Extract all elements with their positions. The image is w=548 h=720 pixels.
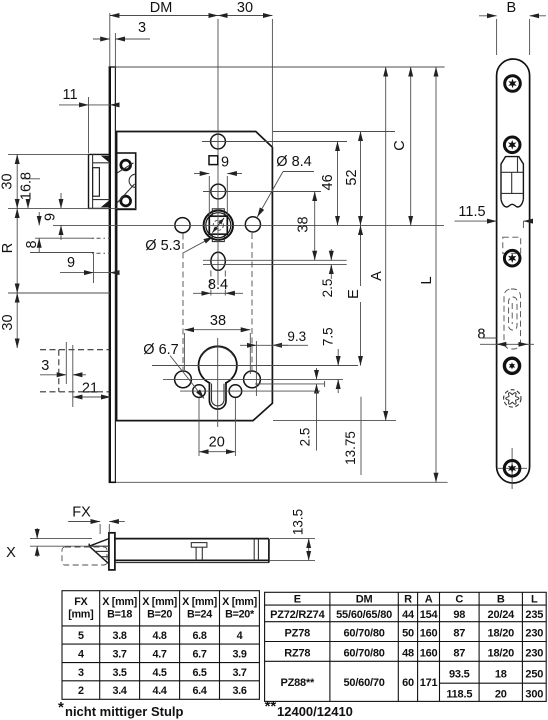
dim 13.5 (270, 509, 315, 561)
svg-text:A: A (425, 594, 433, 606)
dim 2.5 lower (316, 368, 318, 379)
svg-text:87: 87 (453, 647, 465, 659)
dashed square cutout (503, 237, 521, 253)
dashed oval side extensions (210, 271, 212, 299)
screw 2 (504, 137, 520, 153)
screw 4 (504, 358, 519, 373)
svg-text:R: R (0, 243, 16, 253)
spindle hub post (191, 543, 207, 561)
dim R (16, 208, 18, 293)
svg-text:R: R (404, 594, 412, 606)
svg-text:*: * (58, 699, 64, 716)
svg-text:4: 4 (237, 630, 243, 642)
case right edge extension up (271, 19, 273, 147)
svg-text:55/60/65/80: 55/60/65/80 (336, 609, 392, 621)
dashed latch retracted (62, 547, 107, 565)
svg-text:93.5: 93.5 (449, 669, 470, 681)
svg-text:50: 50 (402, 628, 414, 640)
label Ø6.7 with leader (143, 342, 204, 399)
svg-text:X: X (6, 545, 16, 561)
latch cutout (501, 157, 523, 207)
faceplate edge-on (109, 533, 115, 570)
svg-text:300: 300 (525, 689, 543, 701)
small hole left of cylinder channel (193, 385, 206, 398)
svg-text:B=18: B=18 (107, 609, 132, 621)
latch bolt front view (protruding) (89, 154, 111, 208)
dim 21 (73, 396, 111, 398)
svg-text:11.5: 11.5 (458, 204, 485, 220)
svg-text:48: 48 (402, 647, 414, 659)
svg-text:160: 160 (420, 628, 438, 640)
svg-text:2.5: 2.5 (297, 428, 312, 447)
svg-text:9: 9 (43, 213, 59, 221)
svg-text:13.5: 13.5 (291, 509, 306, 535)
svg-text:PZ88**: PZ88** (280, 677, 315, 689)
svg-text:4.5: 4.5 (153, 667, 167, 679)
svg-text:250: 250 (525, 669, 543, 681)
svg-text:8.4: 8.4 (208, 277, 228, 293)
nut centerline (53, 224, 444, 226)
dim 38 horizontal (184, 313, 250, 374)
hole right of nut (245, 217, 260, 232)
dim L (435, 67, 437, 482)
svg-text:L: L (419, 276, 435, 284)
dim 30 upper (16, 154, 18, 208)
faceplate top reference line (111, 66, 445, 68)
svg-text:87: 87 (453, 628, 465, 640)
svg-text:E: E (294, 594, 301, 606)
dim 16.8 (27, 200, 29, 208)
label Ø5.3 with leader (145, 237, 213, 254)
svg-text:3.9: 3.9 (232, 649, 246, 661)
svg-text:B=20: B=20 (147, 609, 172, 621)
dashed deadbolt slot (504, 289, 521, 349)
svg-text:30: 30 (237, 0, 253, 16)
dim B (479, 0, 546, 55)
svg-text:20: 20 (209, 435, 225, 451)
dim 30 top (218, 15, 272, 17)
svg-text:9: 9 (221, 155, 229, 171)
svg-text:PZ78: PZ78 (285, 628, 311, 640)
dim 20 below cylinder (199, 398, 235, 456)
svg-text:8: 8 (477, 327, 485, 343)
oval hole below nut (211, 252, 225, 270)
svg-text:3: 3 (138, 20, 146, 36)
case bottom reference right (273, 420, 396, 422)
screw 1 (505, 76, 521, 92)
svg-text:20: 20 (495, 689, 507, 701)
latch top reference left (8, 153, 89, 155)
dim DM (110, 15, 218, 17)
top hole centerline (202, 141, 347, 143)
deadbolt thrown position (dashed) (40, 350, 109, 392)
bottom screw with centerlines (498, 448, 527, 489)
dim 30 lower (16, 293, 18, 348)
svg-text:X [mm]: X [mm] (182, 596, 217, 608)
svg-text:46: 46 (320, 174, 336, 190)
svg-text:[mm]: [mm] (68, 609, 93, 621)
dim E (360, 225, 362, 286)
screw 3 (504, 250, 520, 266)
svg-text:9.3: 9.3 (287, 329, 306, 344)
faceplate bottom edge (109, 481, 117, 483)
dim A (385, 67, 387, 421)
line y238.2 left (35, 237, 94, 239)
svg-text:6.4: 6.4 (192, 685, 206, 697)
line y252.5 left (30, 252, 94, 254)
svg-text:X [mm]: X [mm] (102, 596, 137, 608)
svg-text:C: C (392, 140, 408, 150)
circle flanking cylinder left (175, 371, 192, 388)
svg-text:3.8: 3.8 (113, 630, 127, 642)
svg-text:230: 230 (525, 628, 543, 640)
svg-text:38: 38 (296, 216, 312, 232)
svg-text:3.7: 3.7 (113, 649, 127, 661)
dashed chain left hole to flanking circle (182, 234, 184, 371)
dim 11 latch projection (59, 104, 89, 106)
dim 2.5 upper (330, 249, 332, 260)
svg-text:C: C (455, 594, 463, 606)
dim 3 deadbolt (40, 374, 66, 376)
dim 3 faceplate thickness (93, 38, 110, 40)
latch bevel triangle (89, 539, 109, 564)
svg-text:60: 60 (402, 677, 414, 689)
dim 13.75 (360, 397, 362, 475)
svg-text:Ø 8.4: Ø 8.4 (276, 154, 311, 170)
svg-text:52: 52 (344, 169, 360, 185)
svg-text:16.8: 16.8 (19, 172, 35, 200)
svg-text:4.7: 4.7 (153, 649, 167, 661)
circle flanking cylinder right (244, 371, 261, 388)
svg-text:nicht mittiger Stulp: nicht mittiger Stulp (65, 704, 184, 719)
svg-text:3.4: 3.4 (113, 685, 127, 697)
spindle nut (204, 209, 233, 242)
small holes centerline (180, 390, 320, 392)
cylinder centerline horizontal (152, 365, 358, 367)
line y264.6 (203, 264, 347, 266)
faceplate back edge (114, 67, 116, 482)
latch bottom reference left (8, 207, 136, 209)
svg-text:13.75: 13.75 (343, 431, 358, 465)
latch center tick left (22, 178, 40, 180)
svg-text:20/24: 20/24 (488, 609, 516, 621)
svg-text:A: A (369, 271, 385, 281)
svg-text:B: B (506, 0, 516, 16)
svg-text:11: 11 (62, 87, 77, 103)
faceplate front extension up (109, 13, 111, 67)
svg-text:38: 38 (210, 313, 226, 329)
svg-text:9: 9 (67, 255, 75, 271)
latch body inside case (117, 153, 136, 209)
dim X (6, 528, 92, 561)
faceplate front edge (109, 67, 111, 482)
square 9 dim (194, 155, 242, 217)
dashed chain right hole to flanking circle (251, 233, 253, 370)
dim 38 vertical (314, 192, 316, 261)
svg-text:50/60/70: 50/60/70 (343, 677, 384, 689)
svg-text:B: B (497, 594, 505, 606)
svg-text:X [mm]: X [mm] (222, 596, 257, 608)
svg-text:118.5: 118.5 (446, 689, 472, 701)
hole top (case) (211, 134, 226, 149)
svg-text:PZ72/RZ74: PZ72/RZ74 (270, 609, 326, 621)
svg-text:18/20: 18/20 (488, 628, 515, 640)
svg-text:6.7: 6.7 (192, 649, 206, 661)
svg-text:18: 18 (495, 669, 507, 681)
svg-text:4.8: 4.8 (153, 630, 167, 642)
svg-text:6.8: 6.8 (192, 630, 206, 642)
svg-text:30: 30 (0, 314, 16, 330)
svg-text:B=20*: B=20* (225, 609, 255, 621)
line y383.9 (255, 383, 325, 385)
line y293 left (8, 292, 110, 294)
svg-text:FX: FX (72, 505, 91, 521)
dim 46 (337, 142, 339, 226)
small hole right of cylinder channel (229, 385, 242, 398)
svg-text:L: L (531, 594, 538, 606)
dim 8.4 below oval (193, 277, 243, 293)
dim 9 left (60, 193, 62, 208)
dim 11.5 (455, 204, 531, 228)
svg-text:**: ** (265, 698, 277, 715)
svg-text:235: 235 (525, 609, 543, 621)
svg-text:RZ78: RZ78 (284, 647, 310, 659)
svg-text:230: 230 (525, 647, 543, 659)
svg-text:7.5: 7.5 (321, 327, 336, 346)
dim 7.5 (337, 349, 339, 366)
faceplate outline stadium (497, 59, 530, 483)
svg-text:FX: FX (74, 596, 88, 608)
svg-text:60/70/80: 60/70/80 (343, 628, 384, 640)
vertical axis centerline (217, 19, 219, 132)
svg-text:171: 171 (420, 677, 438, 689)
svg-text:3: 3 (78, 667, 84, 679)
svg-text:8: 8 (24, 240, 40, 248)
line y260 (203, 259, 347, 261)
case top reference right (273, 131, 395, 133)
dim 9.3 (240, 329, 308, 396)
svg-text:21: 21 (82, 381, 98, 397)
svg-text:Ø 5.3: Ø 5.3 (145, 238, 180, 254)
dim 8 left (38, 212, 40, 225)
case body edge-on (115, 539, 269, 563)
faceplate back extension up (114, 33, 116, 67)
svg-text:154: 154 (420, 609, 439, 621)
svg-text:12400/12410: 12400/12410 (277, 704, 353, 719)
svg-text:B=24: B=24 (187, 609, 212, 621)
svg-text:30: 30 (0, 173, 16, 189)
faceplate top edge (109, 66, 117, 68)
dim FX (68, 505, 125, 535)
cylinder hole (PZ profile) (199, 346, 237, 409)
hole 2 (211, 184, 226, 199)
svg-text:18/20: 18/20 (488, 647, 515, 659)
svg-text:6.5: 6.5 (192, 667, 206, 679)
deadbolt retracted dashes near faceplate (92, 238, 110, 253)
svg-text:2: 2 (78, 685, 84, 697)
svg-text:5: 5 (78, 630, 84, 642)
dim C (410, 67, 412, 225)
svg-text:DM: DM (150, 0, 173, 16)
svg-text:4: 4 (78, 649, 84, 661)
svg-text:3.7: 3.7 (232, 667, 246, 679)
hole2 centerline (203, 191, 321, 193)
svg-text:4.4: 4.4 (153, 685, 167, 697)
lock case outline (117, 132, 273, 421)
dim 9 horizontal (deadbolt) (60, 272, 94, 274)
svg-text:E: E (346, 289, 362, 299)
svg-text:160: 160 (420, 647, 438, 659)
svg-text:DM: DM (356, 594, 373, 606)
svg-text:60/70/80: 60/70/80 (343, 647, 384, 659)
svg-text:3: 3 (41, 358, 49, 374)
svg-text:2.5: 2.5 (320, 279, 335, 298)
hole left of nut (175, 218, 190, 233)
flanking circles centerline (163, 378, 343, 380)
svg-text:98: 98 (453, 609, 465, 621)
svg-text:Ø 6.7: Ø 6.7 (143, 342, 178, 358)
svg-text:3.5: 3.5 (113, 667, 127, 679)
faceplate bottom reference right (117, 481, 448, 483)
svg-text:3.6: 3.6 (232, 685, 246, 697)
serrated hole (504, 390, 521, 407)
dim 8 right view (477, 327, 534, 345)
dim 52 (360, 132, 362, 226)
label Ø8.4 with leader (257, 154, 314, 217)
svg-text:44: 44 (402, 609, 415, 621)
svg-text:X [mm]: X [mm] (142, 596, 177, 608)
